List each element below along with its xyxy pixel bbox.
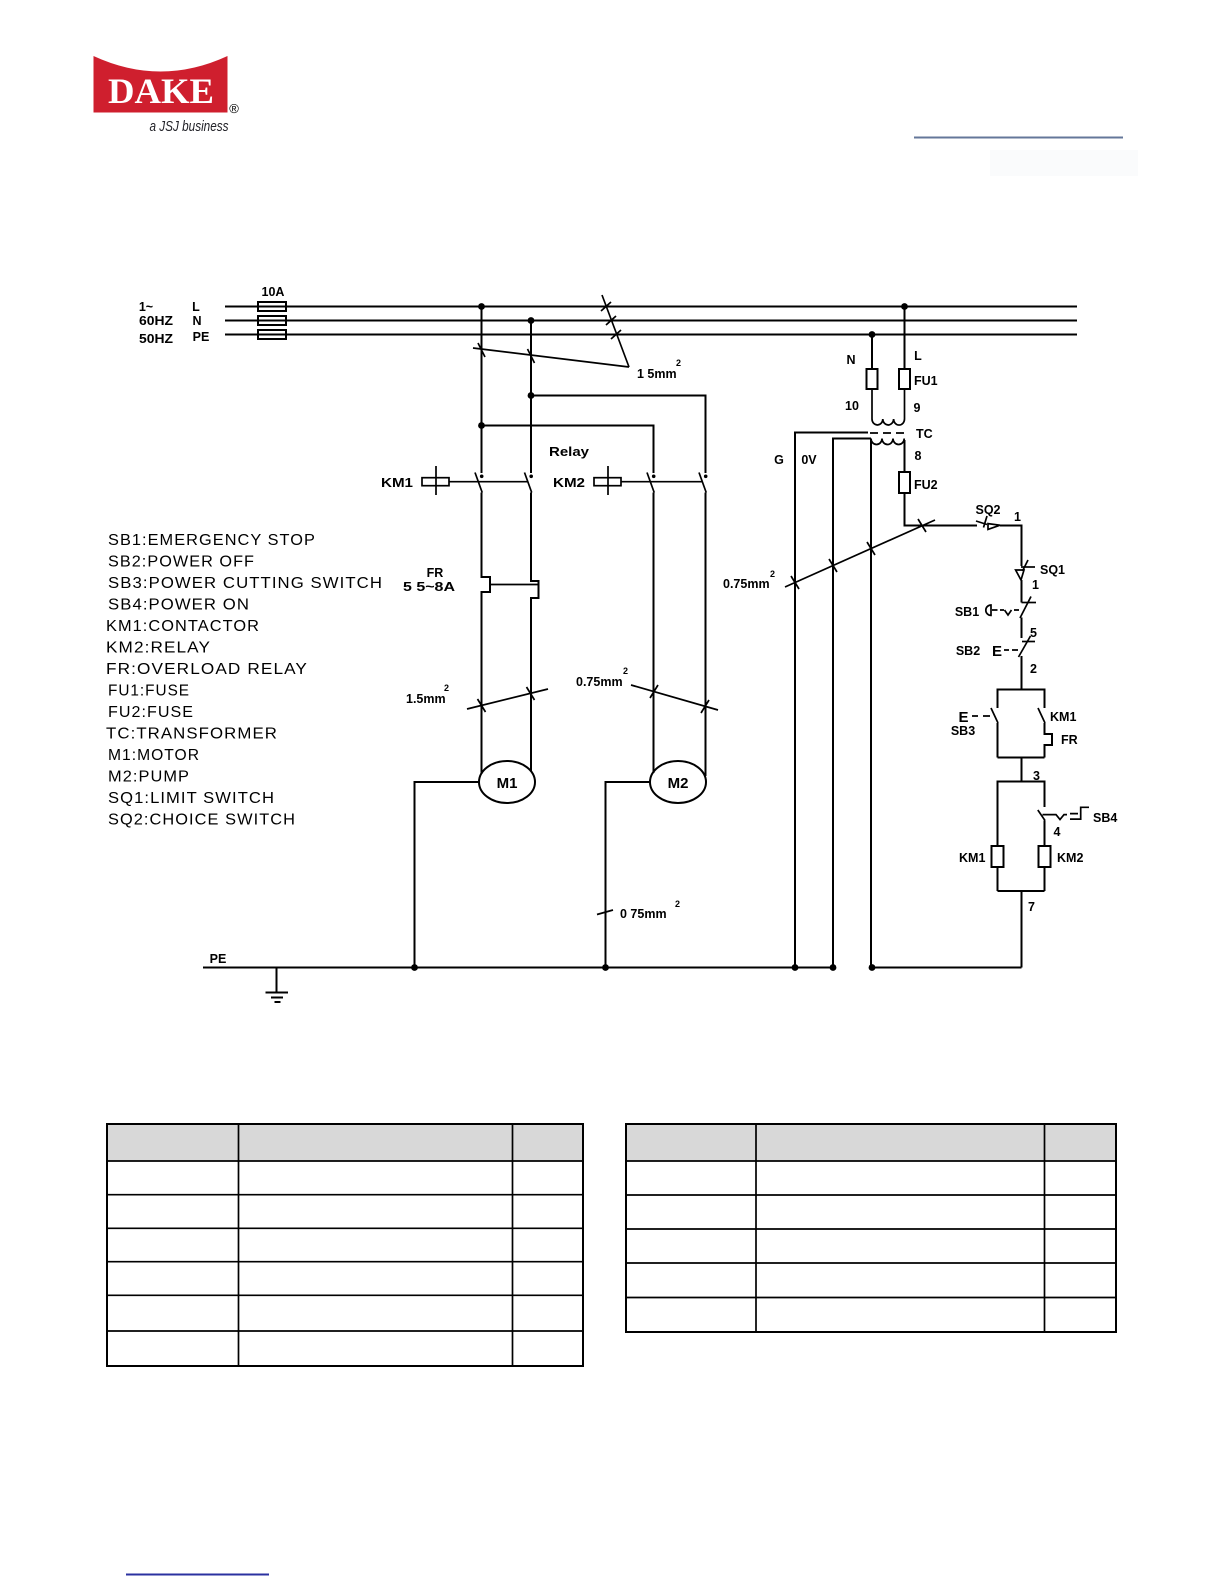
svg-text:SQ2:CHOICE SWITCH: SQ2:CHOICE SWITCH [108,812,296,829]
svg-text:®: ® [229,101,239,116]
relay KM2 coil symbol [594,466,703,495]
svg-text:G: G [774,453,784,467]
wire KM2 pole1 down to M2 [653,493,655,774]
power line N [225,320,1077,322]
wire L drop to KM1 left contact [481,307,483,474]
svg-text:2: 2 [623,666,628,676]
node branch L [478,422,485,429]
svg-text:FU1: FU1 [914,374,938,388]
power off button SB2 [956,636,1037,689]
contactor coil KM1 [992,846,1004,867]
fuse FU2 [899,472,910,493]
svg-text:TC:TRANSFORMER: TC:TRANSFORMER [106,726,278,743]
emergency stop SB1 [955,597,1037,641]
faint watermark remnants [990,150,1138,176]
svg-text:M2: M2 [668,775,689,792]
svg-text:PE: PE [210,952,227,966]
svg-text:a JSJ business: a JSJ business [150,118,229,135]
KM2 contact pole 1 [647,473,656,493]
power line L [225,306,1077,308]
svg-text:5 5~8A: 5 5~8A [403,580,455,594]
PE bus right segment [872,967,1022,969]
limit switch SQ1 [1016,560,1065,603]
svg-text:SB3:POWER CUTTING SWITCH: SB3:POWER CUTTING SWITCH [108,575,383,592]
switch SQ2 [975,503,1021,566]
DAKE logo red shield [94,56,228,113]
node branch N [528,392,535,399]
svg-text:KM1:CONTACTOR: KM1:CONTACTOR [106,618,260,635]
svg-text:1: 1 [1032,578,1039,592]
right parts table [626,1124,1116,1332]
svg-text:N: N [846,353,855,367]
overload relay FR pole 1 [482,493,491,775]
svg-text:M1: M1 [497,775,518,792]
parallel block KM1 / SB4-KM2 coils [959,782,1117,968]
annotation 1.5mm2 top diagonal [473,295,681,381]
wire secondary 0V drop [870,439,872,968]
svg-text:KM2: KM2 [1057,851,1083,865]
KM1 contact pole 1 [475,473,484,493]
svg-text:KM2:RELAY: KM2:RELAY [106,640,211,657]
legend list [106,532,383,829]
overload relay FR pole 2 [531,493,539,772]
svg-text:2: 2 [675,899,680,909]
wire N drop to KM1 right contact [530,321,532,474]
annotation 0.75mm2 control feed [723,519,935,591]
svg-text:2: 2 [1030,662,1037,676]
svg-text:SB4: SB4 [1093,811,1117,825]
svg-text:1 5mm: 1 5mm [637,367,677,381]
node L junction left [478,303,485,310]
transformer TC core dashes [870,432,904,434]
svg-text:60HZ: 60HZ [139,314,173,328]
svg-text:KM2: KM2 [553,476,585,490]
svg-text:TC: TC [916,427,933,441]
svg-text:FU1:FUSE: FU1:FUSE [108,683,190,700]
fuse on N feed [867,369,878,389]
left parts table [107,1124,583,1366]
svg-text:SQ1:LIMIT SWITCH: SQ1:LIMIT SWITCH [108,790,275,807]
svg-text:SB2:POWER OFF: SB2:POWER OFF [108,554,255,571]
svg-text:L: L [192,300,200,314]
svg-text:2: 2 [444,683,449,693]
svg-text:10: 10 [845,399,859,413]
svg-text:FR:OVERLOAD RELAY: FR:OVERLOAD RELAY [106,661,308,678]
transformer TC primary [872,389,905,425]
wire FU2 to SQ2 [905,493,978,526]
svg-text:FU2: FU2 [914,478,938,492]
node L junction right [901,303,908,310]
fuse on PE line [258,330,286,339]
svg-text:0 75mm: 0 75mm [620,907,667,921]
svg-text:SB2: SB2 [956,644,980,658]
power line PE [225,334,1077,336]
svg-text:50HZ: 50HZ [139,332,173,346]
wire KM2 pole2 down to M2 [705,493,707,777]
wire PE-right drop to fuse [871,335,873,370]
svg-text:Relay: Relay [549,445,589,459]
svg-text:SB1:EMERGENCY STOP: SB1:EMERGENCY STOP [108,532,316,549]
KM2 contact pole 2 [699,473,708,493]
node 0V-PE [830,964,837,971]
pump M2 [650,761,706,803]
svg-text:10A: 10A [262,285,285,299]
contactor KM1 coil symbol [422,466,528,495]
fuse on N line [258,316,286,325]
wire M1 PE tail [415,782,481,968]
svg-text:1~: 1~ [139,300,153,314]
node M1-PE [411,964,418,971]
node M2-PE [602,964,609,971]
overload relay FR link [490,584,539,586]
svg-text:FU2:FUSE: FU2:FUSE [108,704,194,721]
node secondary-PE [869,964,876,971]
svg-text:PE: PE [193,330,210,344]
svg-text:L: L [914,349,922,363]
svg-text:4: 4 [1054,825,1061,839]
PE bus left segment [203,967,836,969]
fuse on L line [258,302,286,311]
transformer TC secondary [871,439,904,445]
svg-text:SB3: SB3 [951,724,975,738]
svg-text:2: 2 [770,569,775,579]
relay coil KM2 [1044,821,1046,847]
svg-text:M2:PUMP: M2:PUMP [108,769,190,786]
wire 0V [833,439,871,968]
svg-text:SQ2: SQ2 [975,503,1000,517]
svg-text:KM1: KM1 [381,476,413,490]
svg-text:FR: FR [1061,733,1078,747]
svg-text:9: 9 [914,401,921,415]
parallel block SB3 / KM1-FR [951,690,1078,784]
svg-text:2: 2 [676,358,681,368]
node PE junction right [869,331,876,338]
svg-text:FR: FR [427,566,444,580]
footer link rule [126,1574,269,1576]
svg-text:0.75mm: 0.75mm [576,675,623,689]
svg-text:KM1: KM1 [1050,710,1076,724]
annotation 0.75mm2 at M2 PE tail [597,899,680,921]
svg-text:N: N [192,314,201,328]
svg-text:SQ1: SQ1 [1040,563,1065,577]
svg-text:SB1: SB1 [955,605,979,619]
wire G with ground-screen link [795,433,868,968]
wire branch to KM2 left contact [482,426,654,474]
motor M1 [479,761,535,803]
wire secondary hot to FU2 [904,440,906,472]
svg-text:DAKE: DAKE [108,71,214,111]
wire M2 PE tail [606,782,652,968]
header rule (slate blue) [914,137,1123,139]
svg-text:1: 1 [1014,510,1021,524]
svg-text:7: 7 [1028,900,1035,914]
wire branch to KM2 right contact [531,396,706,474]
svg-text:KM1: KM1 [959,851,985,865]
KM1 contact pole 2 [525,473,534,493]
ground symbol [266,968,289,1003]
svg-text:M1:MOTOR: M1:MOTOR [108,747,200,764]
node G-PE [792,964,799,971]
svg-text:SB4:POWER ON: SB4:POWER ON [108,597,250,614]
wire L-right drop to fuse FU1 [904,307,906,370]
svg-text:1.5mm: 1.5mm [406,692,446,706]
annotation 0.75mm2 at M2 [576,666,718,713]
fuse FU1 [899,369,910,389]
svg-text:0V: 0V [801,453,817,467]
svg-text:0.75mm: 0.75mm [723,577,770,591]
node N junction left [528,317,535,324]
annotation 1.5mm2 at M1 [406,683,548,712]
svg-text:5: 5 [1030,626,1037,640]
svg-text:8: 8 [915,449,922,463]
svg-text:E: E [992,643,1002,660]
